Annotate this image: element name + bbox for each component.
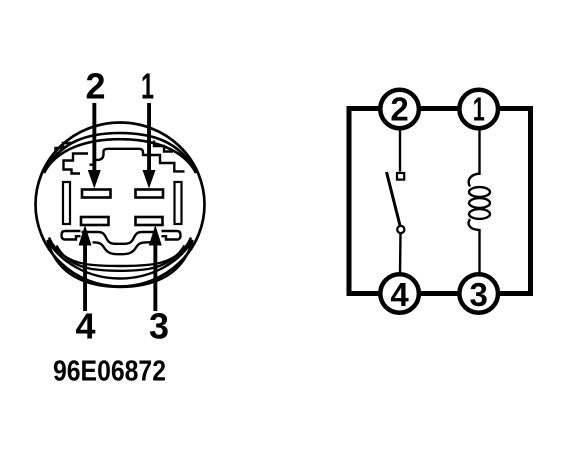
terminal 1 circle [459, 90, 498, 129]
svg-text:4: 4 [390, 276, 409, 313]
center dip band lower line [93, 242, 155, 254]
svg-text:3: 3 [470, 276, 488, 313]
coil L1 [469, 174, 490, 231]
wire from terminal 1 to coil [478, 130, 480, 175]
svg-text:3: 3 [149, 306, 169, 347]
connector bottom crescent band [48, 240, 193, 287]
top center keyway (hat) [90, 149, 185, 172]
terminal slot 3 (bottom-right) [136, 217, 163, 225]
connector outer ring [36, 123, 205, 287]
lower U band upper line [49, 238, 191, 267]
terminal 4 circle [380, 274, 419, 313]
upper-left band notch [56, 143, 72, 154]
svg-text:2: 2 [390, 90, 408, 127]
lower-left bracket keyway [62, 231, 81, 240]
arrow from terminal 4 [79, 225, 92, 311]
svg-text:96E06872: 96E06872 [53, 356, 166, 388]
lower U band lower line [57, 246, 185, 271]
connector top crescent band [44, 133, 196, 173]
wire from switch to terminal 4 [399, 234, 402, 276]
svg-text:2: 2 [85, 66, 105, 107]
switch moving contact (circle) [397, 226, 404, 233]
svg-text:1: 1 [473, 90, 485, 127]
arrow from terminal 3 [149, 225, 162, 311]
arrow to terminal 2 [88, 103, 101, 189]
schematic outer loop wire [349, 109, 531, 294]
terminal slot 4 (bottom-left) [81, 217, 109, 225]
terminal 3 circle [459, 274, 498, 313]
upper-right band notch [154, 141, 173, 152]
terminal slot 1 (top-right) [136, 190, 164, 198]
switch blade [387, 172, 401, 226]
svg-text:4: 4 [75, 306, 95, 347]
terminal slot 2 (top-left) [82, 190, 111, 198]
arrow to terminal 1 [143, 103, 156, 189]
wire from coil to terminal 3 [478, 229, 480, 275]
right side bar [175, 182, 182, 224]
left side bar [63, 182, 70, 224]
svg-text:1: 1 [141, 66, 154, 107]
wire from terminal 2 to switch [399, 130, 401, 172]
terminal 2 circle [380, 90, 419, 129]
center dip band upper line [82, 232, 154, 244]
switch fixed contact (square) [397, 173, 404, 180]
upper-left keyway staircase [64, 154, 89, 174]
lower-right bracket keyway [162, 231, 181, 240]
